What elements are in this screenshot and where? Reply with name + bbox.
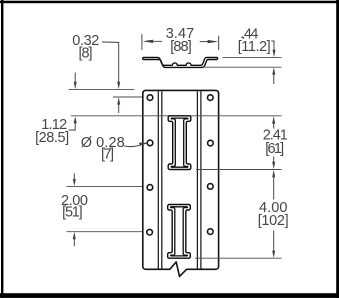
top view hat-channel profile: [143, 57, 218, 67]
extension lines (gray): [66, 57, 281, 258]
svg-text:[51]: [51]: [62, 205, 83, 221]
1.12 arrows: [74, 73, 76, 83]
4.00 dim line (broken by text): [273, 178, 275, 200]
dimension lines, arrows, leaders: [69, 34, 276, 258]
svg-text:[8]: [8]: [79, 46, 93, 62]
slot 1 outer: [168, 116, 191, 170]
0.32 leader elbow + down arrow to line1, up arrow to line2: [102, 42, 119, 82]
svg-text:[88]: [88]: [170, 39, 192, 55]
svg-text:[102]: [102]: [258, 213, 289, 229]
bend/step lines: [158, 91, 201, 268]
svg-text:[7]: [7]: [101, 147, 114, 163]
svg-text:[61]: [61]: [265, 141, 284, 157]
holes: [147, 95, 213, 235]
svg-text:[28.5]: [28.5]: [35, 130, 69, 146]
2.41 dim line (broken by text): [273, 124, 275, 129]
2.00 arrows: [73, 173, 75, 179]
diameter leader: [124, 143, 146, 146]
svg-text:[11.2]: [11.2]: [238, 39, 271, 55]
front view body: [143, 90, 219, 276]
slot 2 inner: [171, 207, 188, 256]
.44 leader elbow + arrows: [271, 41, 274, 51]
3.47 dim: [141, 34, 143, 50]
slot 2 outer: [168, 205, 191, 259]
slot 1 inner: [171, 118, 188, 167]
